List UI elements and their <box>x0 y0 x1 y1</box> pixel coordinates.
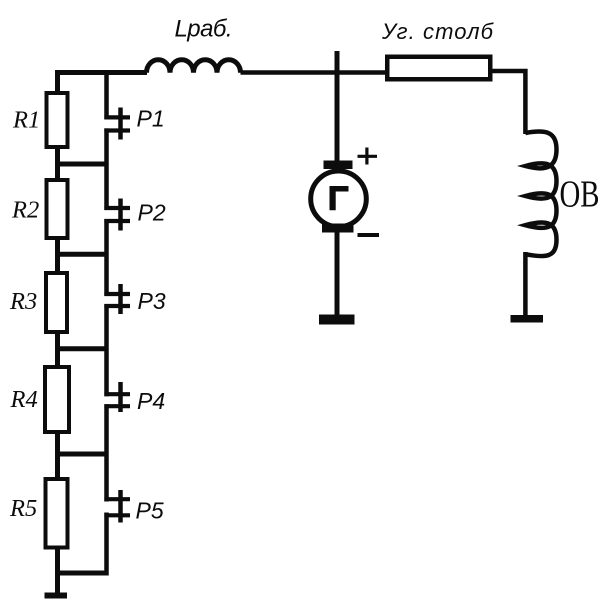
ground bottom left <box>45 593 68 599</box>
generator brush top <box>324 161 353 170</box>
carbon pile resistor "Уг. столб" <box>387 57 490 80</box>
resistor R1 <box>47 93 68 147</box>
wire R1 to R2 <box>55 147 60 180</box>
svg-text:R2: R2 <box>11 197 39 224</box>
ground right (field winding) <box>511 315 544 323</box>
generator brush bottom <box>322 224 354 233</box>
resistor R3 <box>46 273 67 332</box>
plus sign <box>358 148 378 165</box>
wire P5 to bottom jog <box>104 513 109 576</box>
svg-text:Уг. столб: Уг. столб <box>381 19 495 44</box>
svg-text:P1: P1 <box>137 106 165 132</box>
field winding OB coil <box>525 131 556 256</box>
svg-text:P2: P2 <box>138 200 166 226</box>
wire P1 to P2 <box>104 128 109 210</box>
svg-text:R3: R3 <box>9 288 37 315</box>
minus sign <box>358 233 380 237</box>
resistor R2 <box>47 180 68 238</box>
svg-text:ОВ: ОВ <box>560 174 598 216</box>
wire R5 to ground <box>55 548 60 595</box>
wire OB coil to ground <box>523 252 528 318</box>
wire P4 to P5 <box>104 404 109 501</box>
wire P3 to P4 <box>104 304 109 396</box>
svg-text:R5: R5 <box>9 495 37 522</box>
contact P3 <box>104 284 130 314</box>
wire carbon pile to right corner <box>493 71 526 134</box>
wire jog R1-R2 to P bus <box>55 162 109 167</box>
resistor R4 <box>45 367 69 432</box>
generator letter Г <box>330 186 349 210</box>
svg-text:R1: R1 <box>12 107 40 134</box>
contact P4 <box>104 382 130 412</box>
ground generator <box>319 315 355 325</box>
inductor L "Lраб." <box>147 60 241 73</box>
resistor R5 <box>46 479 68 548</box>
wire top bus middle segment <box>241 70 387 75</box>
wire R3 to R4 <box>55 332 60 367</box>
wire generator to ground <box>335 231 340 317</box>
wire jog R3-R4 to P bus <box>55 346 109 351</box>
svg-text:P5: P5 <box>136 498 164 524</box>
contact P2 <box>104 199 130 231</box>
generator G1 circle <box>311 171 367 227</box>
wire P2 to P3 <box>104 219 109 296</box>
wire jog R2-R3 to P bus <box>55 252 109 257</box>
wire generator branch from top bus <box>335 51 340 163</box>
svg-text:P4: P4 <box>137 388 165 414</box>
wire jog bottom to P bus <box>55 571 109 576</box>
svg-text:P3: P3 <box>138 288 166 314</box>
svg-text:Lраб.: Lраб. <box>175 16 233 43</box>
contact P5 <box>104 490 130 523</box>
wire R2 to R3 <box>55 238 60 273</box>
wire top bus left segment <box>55 70 147 75</box>
wire jog R4-R5 to P bus <box>55 452 109 457</box>
wire left vertical top <box>55 70 60 93</box>
wire R4 to R5 <box>55 432 60 479</box>
wire P bus from top bus to P1 <box>104 70 109 119</box>
svg-text:R4: R4 <box>10 386 38 413</box>
contact P1 <box>104 108 130 140</box>
